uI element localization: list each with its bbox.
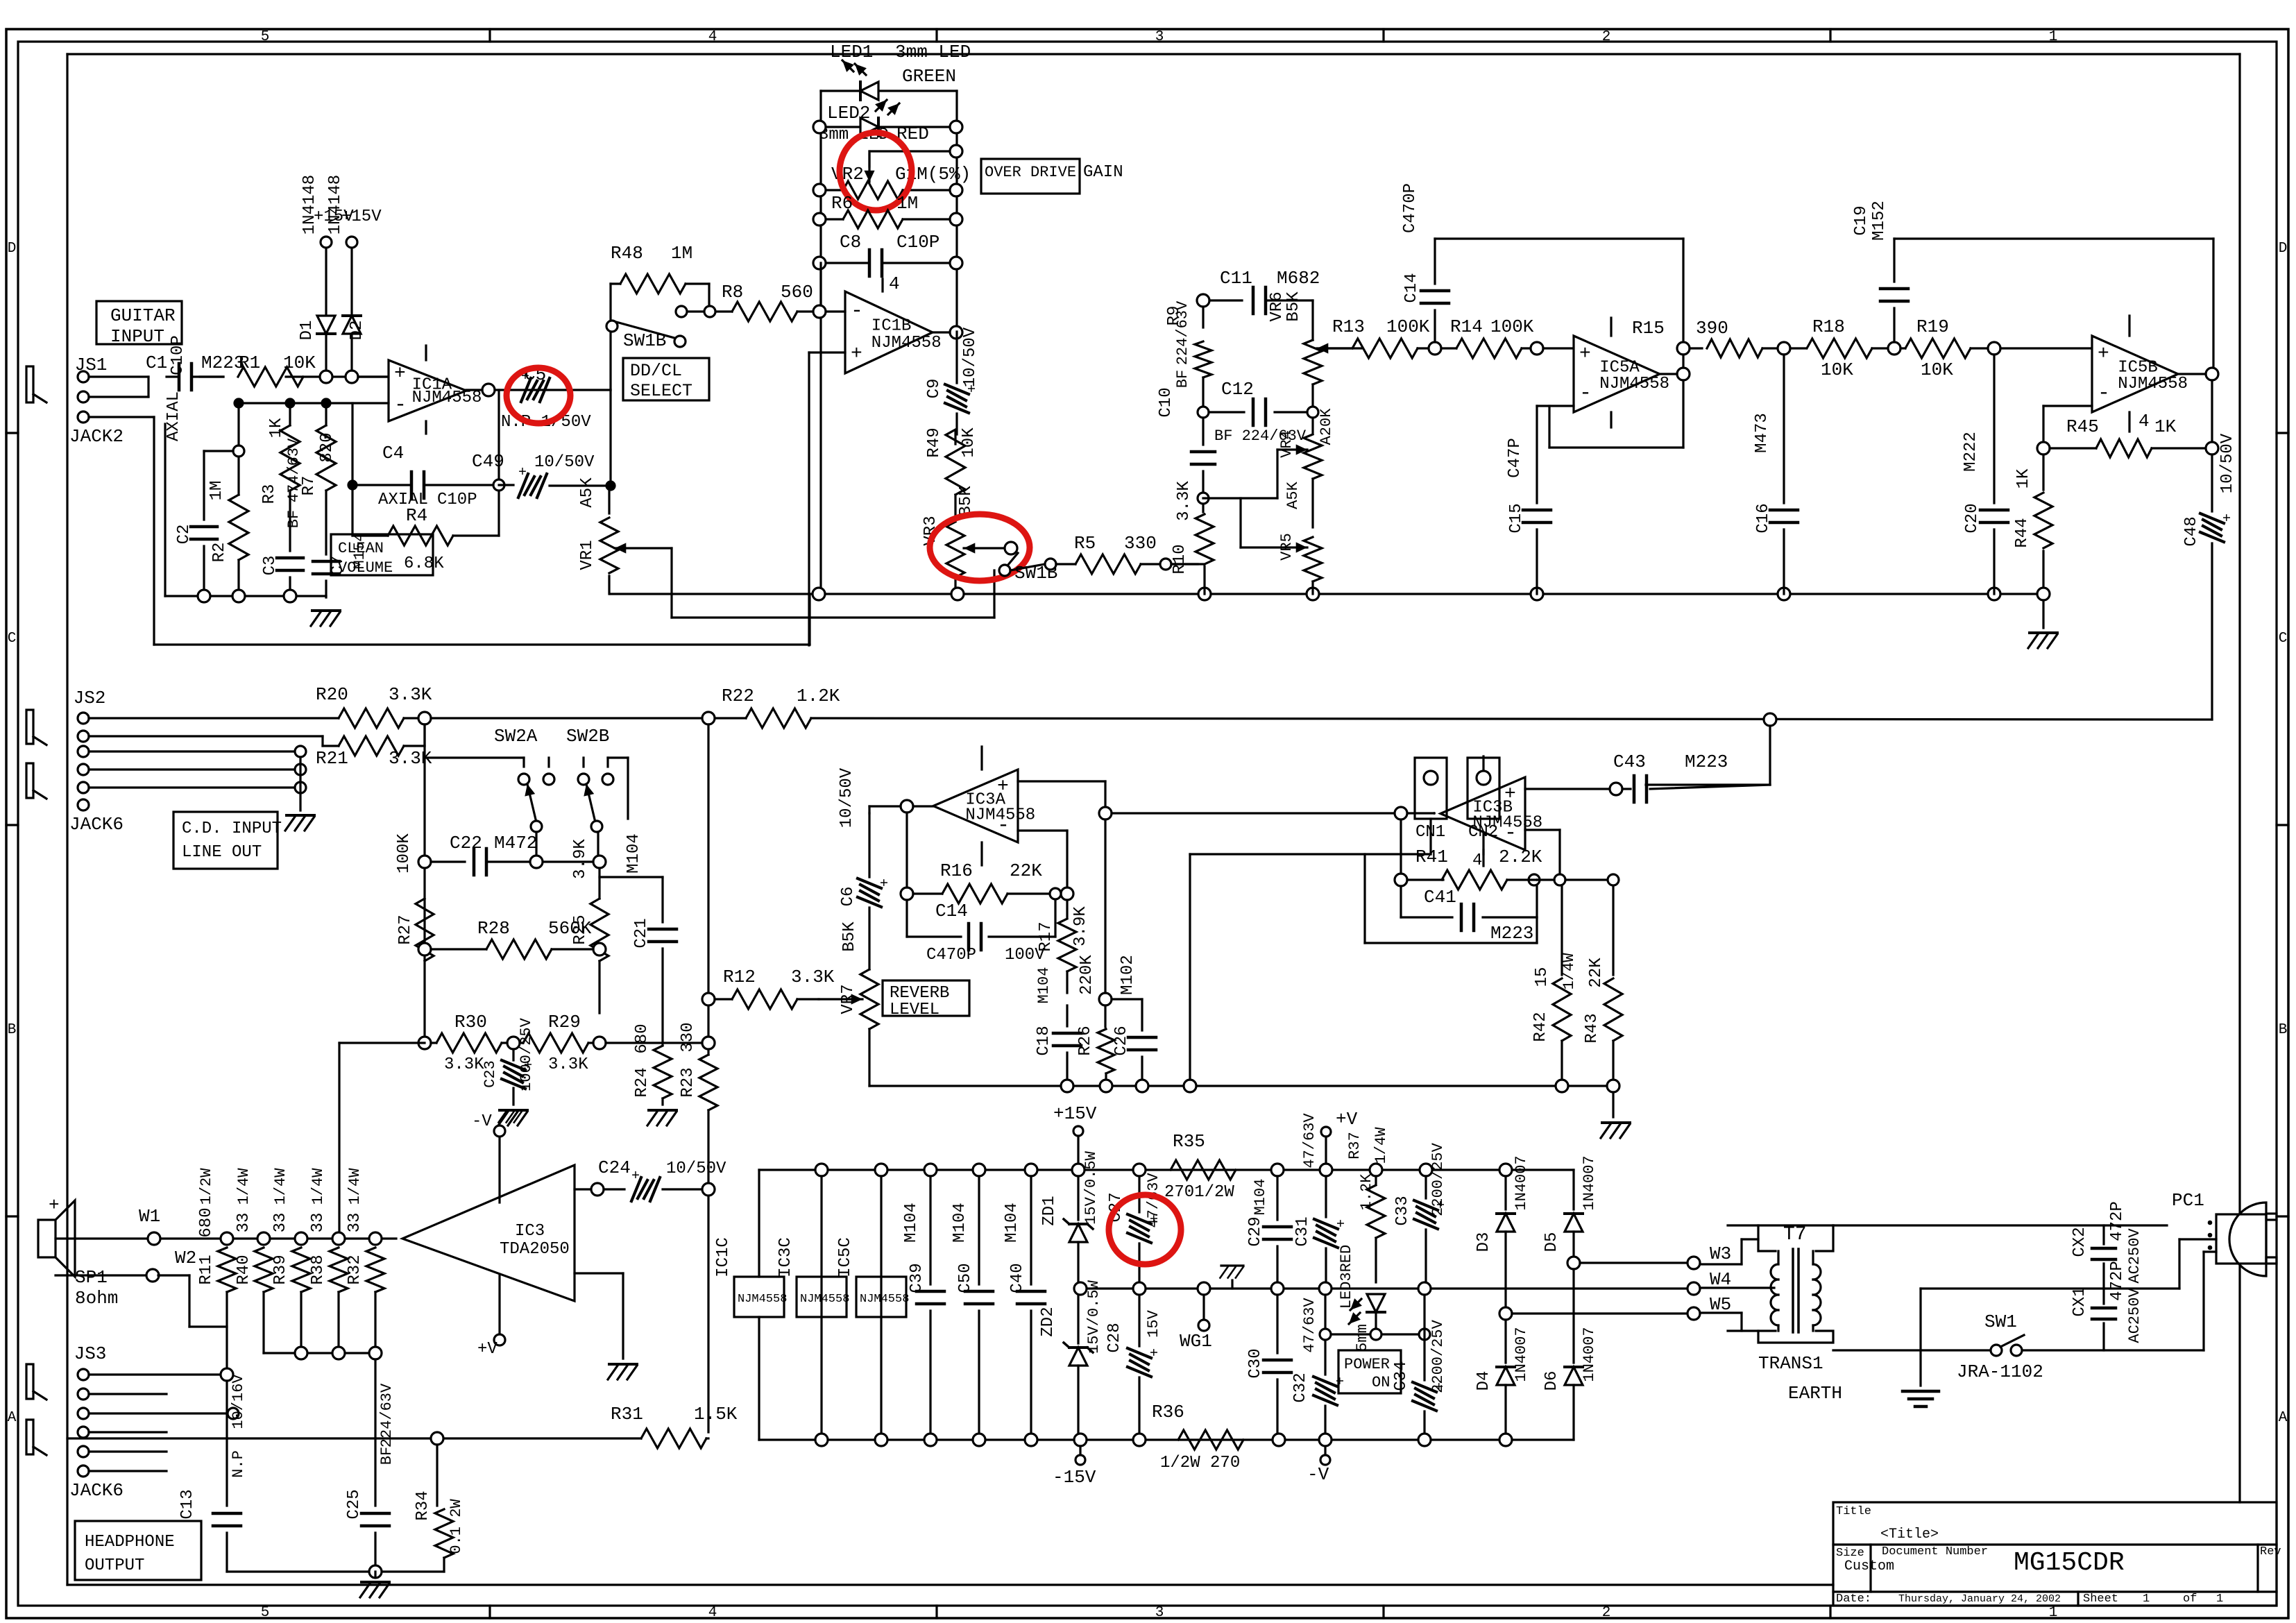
svg-text:R10: R10 [1171, 544, 1189, 574]
feedback C4 [351, 403, 353, 536]
input stage bottom rail [165, 595, 326, 597]
svg-text:+: + [1144, 1348, 1160, 1357]
svg-text:B5K: B5K [1284, 291, 1303, 322]
IC3C column [820, 1176, 822, 1440]
svg-text:-: - [851, 299, 863, 323]
svg-text:5mm: 5mm [1354, 1324, 1371, 1352]
svg-text:C20: C20 [1963, 503, 1982, 533]
resistor R25 column [598, 868, 600, 899]
connector CN1 [1415, 758, 1447, 819]
svg-text:CLEAN: CLEAN [338, 540, 384, 557]
svg-text:R29: R29 [548, 1012, 581, 1033]
node bus IC3A [1099, 807, 1112, 819]
svg-text:W3: W3 [1710, 1243, 1731, 1264]
resistor R37 LED3 [1375, 1176, 1377, 1184]
svg-text:BF: BF [378, 1447, 396, 1465]
capacitor C14 feedback [1434, 310, 1436, 342]
W5 wire [1499, 1307, 1512, 1320]
svg-text:2200/25V: 2200/25V [1429, 1319, 1447, 1393]
svg-text:1: 1 [2216, 1592, 2223, 1606]
svg-text:R22: R22 [722, 686, 754, 706]
svg-text:1M: 1M [671, 243, 692, 264]
svg-text:15V/0.5W: 15V/0.5W [1082, 1150, 1100, 1224]
svg-text:3.9K: 3.9K [571, 839, 590, 879]
jack JACK6 lower sleeve [26, 1420, 33, 1454]
svg-text:M104: M104 [1252, 1179, 1269, 1216]
capacitor C43 [1525, 788, 1616, 790]
resistor R11 [218, 1248, 236, 1292]
svg-text:B: B [2279, 1022, 2288, 1038]
terminal WG1 [1202, 1295, 1205, 1320]
IC5A feedback loop [1682, 380, 1684, 448]
switch SW2A [518, 774, 529, 785]
svg-text:0.1 2W: 0.1 2W [448, 1499, 465, 1554]
svg-text:D: D [8, 241, 17, 257]
svg-text:INPUT: INPUT [110, 326, 164, 347]
svg-text:C14: C14 [935, 901, 968, 921]
svg-text:Sheet: Sheet [2083, 1592, 2118, 1606]
svg-text:C31: C31 [1293, 1216, 1312, 1246]
svg-text:M472: M472 [494, 833, 537, 853]
svg-text:1K: 1K [267, 418, 286, 438]
svg-text:472P: 472P [2108, 1201, 2127, 1241]
svg-text:C10P: C10P [896, 232, 939, 253]
IC5B feedback loop [2211, 380, 2213, 442]
svg-text:C2: C2 [175, 525, 194, 545]
svg-text:AC250V: AC250V [2126, 1288, 2143, 1343]
capacitor C32 electrolytic [1324, 1295, 1326, 1375]
svg-text:8ohm: 8ohm [75, 1288, 118, 1309]
vertical R27 column [423, 724, 425, 1043]
node C14 junction [1429, 342, 1441, 355]
svg-text:JACK2: JACK2 [69, 426, 124, 447]
svg-text:-: - [2098, 382, 2110, 405]
svg-text:LINE OUT: LINE OUT [182, 843, 262, 862]
svg-text:1: 1 [2049, 29, 2058, 45]
capacitor C8 [826, 262, 869, 264]
svg-text:33: 33 [235, 1213, 253, 1233]
svg-text:C11: C11 [1220, 268, 1252, 289]
node tone input [1197, 294, 1209, 307]
svg-text:JRA-1102: JRA-1102 [1957, 1361, 2043, 1382]
svg-text:3: 3 [1155, 29, 1164, 45]
wire JS2 tip [89, 717, 339, 719]
svg-text:VR1: VR1 [578, 540, 597, 570]
svg-text:GREEN: GREEN [902, 66, 956, 87]
svg-text:D1: D1 [298, 321, 316, 341]
svg-text:SW1B: SW1B [623, 330, 666, 351]
node IC5A plus [1531, 342, 1543, 355]
svg-text:AXIAL: AXIAL [164, 391, 183, 441]
svg-text:C47P: C47P [1506, 438, 1524, 478]
svg-text:Title: Title [1836, 1505, 1871, 1518]
svg-text:33: 33 [309, 1213, 328, 1233]
svg-text:NJM4558: NJM4558 [800, 1293, 849, 1306]
svg-text:C470P: C470P [926, 946, 976, 965]
svg-text:1K: 1K [2154, 416, 2177, 437]
capacitor C16 M473 [1783, 355, 1785, 503]
title block frame [1833, 1502, 2277, 1606]
svg-text:1N4007: 1N4007 [1581, 1327, 1598, 1382]
R41 row [1395, 874, 1407, 886]
svg-text:R2: R2 [210, 543, 229, 563]
svg-text:R4: R4 [406, 505, 427, 526]
svg-text:PC1: PC1 [2172, 1190, 2204, 1211]
svg-text:2: 2 [1602, 1605, 1611, 1621]
svg-text:1K: 1K [2014, 468, 2033, 488]
svg-text:C43: C43 [1613, 751, 1646, 772]
svg-text:3.3K: 3.3K [389, 684, 432, 705]
capacitor C49 [499, 484, 513, 486]
svg-text:+: + [1579, 343, 1591, 365]
svg-text:Rev: Rev [2260, 1545, 2281, 1558]
svg-text:B5K: B5K [840, 921, 859, 952]
resistor R2 [237, 457, 239, 495]
capacitor C20 M222 [1993, 355, 1995, 503]
svg-text:EARTH: EARTH [1788, 1383, 1842, 1404]
svg-text:HEADPHONE: HEADPHONE [85, 1533, 175, 1552]
svg-text:JS1: JS1 [75, 355, 108, 375]
zener ZD1 [1077, 1176, 1079, 1220]
svg-text:3.3K: 3.3K [444, 1055, 484, 1074]
svg-text:VOLUME: VOLUME [338, 559, 393, 577]
svg-text:C470P: C470P [1401, 183, 1420, 233]
svg-text:R36: R36 [1152, 1402, 1184, 1422]
svg-text:C26: C26 [1112, 1026, 1131, 1055]
svg-text:C29: C29 [1246, 1216, 1265, 1246]
VR3 wiper [964, 547, 1005, 549]
svg-text:C21: C21 [632, 918, 651, 948]
svg-text:1N4007: 1N4007 [1513, 1327, 1530, 1382]
terminal -V [1324, 1446, 1326, 1454]
op-amp IC3A [933, 770, 1018, 842]
svg-text:10K: 10K [283, 352, 316, 373]
svg-text:N.P: N.P [230, 1450, 247, 1478]
svg-text:<Title>: <Title> [1880, 1527, 1939, 1543]
capacitor CX2 [2102, 1225, 2104, 1244]
resistor R17 [1066, 900, 1068, 917]
svg-text:A: A [2279, 1410, 2288, 1426]
svg-text:GUITAR: GUITAR [110, 305, 176, 326]
svg-text:10K: 10K [1921, 359, 1953, 380]
svg-text:C10P: C10P [437, 491, 477, 509]
node IC3A out [901, 800, 913, 813]
VR1 wiper [615, 547, 622, 549]
terminal +V [1321, 1127, 1331, 1137]
svg-text:C22: C22 [450, 833, 482, 853]
TDA power pins [498, 1137, 500, 1203]
resistor R38 [330, 1248, 348, 1292]
DD/CL SELECT box [623, 358, 709, 400]
svg-text:+: + [518, 1060, 534, 1069]
svg-text:1.2K: 1.2K [797, 686, 840, 706]
svg-text:CN2: CN2 [1468, 823, 1498, 842]
capacitor C27 electrolytic [1138, 1176, 1140, 1212]
resistor R45 [2096, 439, 2152, 457]
wire jack2 sleeve bias [153, 417, 155, 645]
R16 feedback row [901, 887, 913, 900]
svg-text:+15V: +15V [1053, 1103, 1097, 1124]
svg-text:10/50V: 10/50V [837, 767, 856, 828]
svg-text:ZD2: ZD2 [1039, 1307, 1057, 1336]
svg-text:C.D. INPUT: C.D. INPUT [182, 819, 282, 838]
svg-text:224/63V: 224/63V [1174, 300, 1191, 365]
svg-text:JACK6: JACK6 [69, 814, 124, 835]
svg-text:1M: 1M [207, 481, 226, 501]
svg-text:JACK6: JACK6 [69, 1480, 124, 1501]
svg-text:SW2B: SW2B [566, 726, 609, 747]
capacitor C50 [978, 1176, 980, 1284]
svg-text:C28: C28 [1105, 1323, 1124, 1352]
svg-text:10/50V: 10/50V [666, 1159, 726, 1178]
ground JACK6 [285, 815, 314, 831]
resistor R24 [654, 1046, 672, 1098]
svg-text:1/2W 270: 1/2W 270 [1160, 1454, 1240, 1472]
capacitor C28 electrolytic [1138, 1295, 1140, 1346]
W4 wire [1687, 1282, 1700, 1295]
svg-text:-: - [394, 393, 407, 417]
svg-text:C8: C8 [840, 232, 861, 253]
capacitor C19 M152 [1893, 308, 1895, 342]
svg-text:Document Number: Document Number [1882, 1545, 1988, 1558]
PC1 plug [2178, 1239, 2180, 1289]
svg-text:33: 33 [346, 1213, 364, 1233]
terminal +15V [1073, 1126, 1083, 1136]
node OD block input [813, 305, 826, 318]
resistor R22 [746, 708, 811, 728]
svg-text:Custom: Custom [1844, 1558, 1894, 1574]
ground reverb rail [1612, 1092, 1614, 1117]
svg-text:M102: M102 [1119, 955, 1137, 995]
wire VR1 wiper return [670, 548, 672, 618]
svg-text:R16: R16 [940, 860, 973, 881]
svg-text:REVERB: REVERB [890, 984, 949, 1003]
red circle VR2 [840, 133, 912, 210]
wire input signal [89, 375, 148, 377]
svg-text:WG1: WG1 [1180, 1331, 1212, 1352]
svg-text:NJM4558: NJM4558 [2118, 375, 2188, 393]
svg-text:10K: 10K [960, 427, 978, 458]
svg-text:TDA2050: TDA2050 [500, 1240, 570, 1259]
wire IC1A out [495, 389, 611, 391]
node 220K [1099, 993, 1112, 1005]
node IC3B out [1433, 812, 1436, 815]
svg-text:NJM4558: NJM4558 [860, 1293, 909, 1306]
svg-text:D2: D2 [348, 321, 366, 341]
svg-text:100K: 100K [1386, 316, 1430, 337]
wire IC1B plus [809, 351, 845, 353]
jog to VR5 wiper [1239, 498, 1241, 547]
wire IC1B minus [826, 310, 845, 312]
svg-text:NJM4558: NJM4558 [871, 334, 942, 352]
svg-text:1.2K: 1.2K [1358, 1173, 1375, 1211]
op-amp IC3B [1440, 777, 1525, 850]
node IC5A out [1677, 368, 1690, 380]
resistor R19 [1900, 347, 1905, 349]
op-amp IC3 TDA2050 [402, 1165, 575, 1301]
switch SW1 mains [1991, 1345, 2002, 1356]
capacitor C23 [512, 1049, 514, 1060]
svg-text:D4: D4 [1474, 1371, 1493, 1391]
R41 to bus [1400, 819, 1402, 874]
svg-text:A5K: A5K [1284, 481, 1302, 509]
svg-text:+V: +V [1336, 1109, 1358, 1130]
power rail plus15 [759, 1169, 1574, 1171]
LED3 bottom wire [1325, 1333, 1425, 1335]
svg-text:820: 820 [318, 432, 337, 462]
svg-text:4: 4 [889, 273, 900, 294]
svg-text:+: + [874, 878, 890, 887]
svg-text:IC3: IC3 [515, 1222, 545, 1241]
op-amp IC1A [389, 360, 466, 421]
resistor R3 [289, 403, 291, 425]
capacitor CX1 [2102, 1289, 2104, 1304]
svg-text:1N4007: 1N4007 [1581, 1155, 1598, 1210]
mid rail 0V [1080, 1287, 1694, 1289]
resistor R20 [339, 708, 404, 728]
GUITAR INPUT label box [96, 301, 182, 344]
svg-text:D: D [2279, 241, 2288, 257]
node R20/R21 [418, 712, 431, 724]
svg-text:-: - [1579, 382, 1592, 405]
svg-text:T7: T7 [1783, 1224, 1807, 1246]
svg-text:R35: R35 [1173, 1131, 1205, 1152]
svg-text:SW2A: SW2A [494, 726, 538, 747]
capacitor C39 [929, 1176, 931, 1284]
JS3 contacts [78, 1369, 89, 1380]
C47P/C15 chain [1536, 406, 1538, 503]
svg-text:JS2: JS2 [74, 688, 106, 708]
svg-text:M104: M104 [624, 833, 643, 874]
reverb bottom rail [868, 1029, 870, 1086]
ground R24 [647, 1110, 677, 1125]
node C12 left [1198, 407, 1209, 418]
JS3 wires [89, 1373, 221, 1375]
IC1C box [734, 1277, 784, 1317]
capacitor C2 [191, 525, 217, 529]
svg-text:1M: 1M [896, 193, 918, 214]
resistor R1 [238, 367, 303, 386]
IC1B pin4 [881, 279, 883, 291]
wire OD left to R8 [819, 263, 822, 305]
svg-text:CN1: CN1 [1415, 823, 1445, 842]
TDA out coupling C24 [575, 1188, 591, 1190]
svg-text:C4: C4 [382, 443, 404, 464]
svg-text:TRANS1: TRANS1 [1758, 1353, 1823, 1374]
capacitor C11 [1209, 299, 1242, 301]
svg-text:+15V: +15V [341, 207, 382, 226]
svg-text:47/63V: 47/63V [1301, 1298, 1318, 1353]
svg-text:3.3K: 3.3K [548, 1055, 588, 1074]
svg-text:330: 330 [679, 1022, 697, 1052]
switch SW1B upper [606, 321, 618, 332]
headphone ground rail [227, 1570, 444, 1572]
pot VR6 [1304, 340, 1322, 384]
IC3C box [797, 1277, 847, 1317]
svg-text:VR5: VR5 [1278, 533, 1295, 561]
op-amp IC5B [2092, 336, 2178, 412]
svg-text:R31: R31 [611, 1404, 643, 1425]
node C19 bottom [1888, 342, 1900, 355]
op-amp IC1B [845, 291, 933, 373]
wire LED2 row [826, 126, 951, 128]
resistor R39 [292, 1248, 310, 1292]
svg-text:R45: R45 [2066, 416, 2099, 437]
CD INPUT LINE OUT box [173, 812, 278, 869]
resistor R5 [1075, 554, 1141, 574]
diode D4 [1504, 1320, 1506, 1363]
svg-text:M104: M104 [1035, 967, 1053, 1004]
svg-text:G1M(5%): G1M(5%) [895, 164, 971, 185]
svg-text:C10: C10 [1157, 387, 1175, 417]
ground mid rail [1231, 1280, 1233, 1289]
svg-text:560: 560 [781, 282, 813, 303]
svg-text:R21: R21 [316, 748, 348, 769]
POWER ON box [1338, 1350, 1401, 1393]
capacitor C22 row [418, 856, 431, 868]
svg-text:1/4W: 1/4W [235, 1168, 253, 1205]
wire IC1A inverting [239, 402, 389, 404]
svg-text:+: + [2217, 513, 2233, 522]
diode D3 [1504, 1176, 1506, 1209]
TDA minus wire [575, 1272, 623, 1274]
svg-text:680: 680 [197, 1207, 216, 1237]
svg-text:Date:: Date: [1836, 1592, 1871, 1606]
svg-text:680: 680 [633, 1023, 652, 1053]
svg-text:R7: R7 [300, 476, 318, 496]
svg-text:R41: R41 [1415, 847, 1448, 867]
node IC1B out [950, 326, 962, 339]
svg-text:C16: C16 [1754, 503, 1773, 533]
svg-text:R11: R11 [197, 1255, 216, 1284]
svg-text:DD/CL: DD/CL [630, 361, 682, 381]
svg-text:+: + [518, 465, 527, 481]
svg-text:15: 15 [1533, 967, 1551, 987]
resistor R4 [352, 534, 388, 536]
svg-text:22K: 22K [1010, 860, 1042, 881]
wire R8 row [715, 310, 732, 312]
svg-text:JS3: JS3 [74, 1343, 107, 1364]
svg-text:R14: R14 [1450, 316, 1483, 337]
switch SW1B lower [999, 565, 1010, 576]
svg-text:R8: R8 [722, 282, 743, 303]
red circle VR3 [930, 514, 1030, 581]
svg-text:VR6: VR6 [1268, 291, 1286, 321]
capacitor C1 [178, 364, 181, 390]
capacitor C18 [1066, 1005, 1068, 1026]
svg-text:A5K: A5K [578, 477, 597, 508]
svg-text:330: 330 [1124, 533, 1157, 554]
R31 wire [67, 1437, 641, 1439]
svg-text:M473: M473 [1753, 413, 1771, 453]
svg-text:R28: R28 [477, 918, 510, 939]
svg-text:+: + [631, 1169, 640, 1184]
svg-text:C41: C41 [1424, 887, 1456, 908]
svg-text:D3: D3 [1474, 1232, 1493, 1252]
svg-text:C18: C18 [1035, 1026, 1053, 1055]
capacitor C29 [1276, 1176, 1278, 1220]
REVERB LEVEL box [883, 980, 969, 1016]
svg-text:R26: R26 [1076, 1026, 1095, 1055]
svg-text:5: 5 [261, 29, 270, 45]
svg-text:390: 390 [1696, 318, 1728, 339]
wire JS2 tip2 [89, 735, 323, 737]
svg-text:10/50V: 10/50V [534, 453, 595, 472]
switch SW2B [578, 774, 589, 785]
pot VR4 [1311, 418, 1313, 434]
resistor R8 [732, 302, 797, 321]
capacitor C21 [599, 876, 663, 878]
